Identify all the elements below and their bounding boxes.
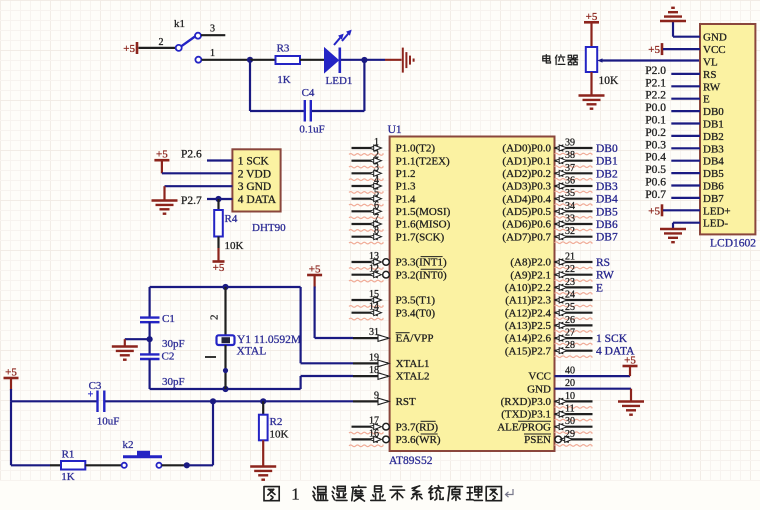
svg-text:35: 35	[565, 188, 575, 199]
svg-text:8: 8	[374, 226, 379, 237]
svg-text:P1.7(SCK): P1.7(SCK)	[396, 231, 445, 243]
svg-text:LED-: LED-	[703, 218, 728, 230]
svg-text:RW: RW	[703, 81, 721, 93]
svg-text:1 SCK: 1 SCK	[238, 156, 270, 168]
svg-text:k1: k1	[174, 18, 185, 30]
svg-text:+5: +5	[648, 44, 660, 56]
svg-text:Y1 11.0592M: Y1 11.0592M	[237, 334, 301, 346]
svg-text:9: 9	[374, 390, 379, 401]
svg-text:33: 33	[565, 214, 575, 225]
svg-text:P3.4(T0): P3.4(T0)	[396, 307, 436, 319]
svg-text:DHT90: DHT90	[252, 222, 286, 234]
svg-text:(AD4)P0.4: (AD4)P0.4	[502, 193, 551, 205]
svg-text:22: 22	[565, 264, 575, 275]
svg-text:34: 34	[565, 201, 575, 212]
svg-text:(AD3)P0.3: (AD3)P0.3	[502, 181, 551, 193]
svg-text:18: 18	[369, 365, 379, 376]
svg-text:0.1uF: 0.1uF	[299, 124, 324, 136]
svg-text:P0.3: P0.3	[645, 139, 666, 151]
svg-text:20: 20	[565, 378, 575, 389]
svg-text:(A11)P2.3: (A11)P2.3	[505, 295, 551, 307]
svg-text:3: 3	[210, 24, 215, 35]
svg-text:C3: C3	[89, 380, 102, 392]
svg-text:36: 36	[565, 176, 575, 187]
svg-text:(A9)P2.1: (A9)P2.1	[510, 269, 551, 281]
svg-text:31: 31	[369, 327, 379, 338]
svg-text:DB4: DB4	[703, 156, 724, 168]
svg-text:E: E	[596, 282, 603, 294]
svg-text:23: 23	[565, 277, 575, 288]
svg-text:R1: R1	[62, 449, 75, 461]
svg-text:17: 17	[369, 416, 379, 427]
svg-text:15: 15	[369, 289, 379, 300]
svg-text:+5: +5	[648, 205, 660, 217]
svg-text:DB3: DB3	[703, 143, 724, 155]
svg-text:30: 30	[565, 416, 575, 427]
svg-text:14: 14	[369, 302, 379, 313]
svg-text:30pF: 30pF	[162, 338, 185, 350]
svg-text:1: 1	[374, 137, 379, 148]
svg-text:40: 40	[565, 366, 575, 377]
svg-text:P1.0(T2): P1.0(T2)	[396, 143, 436, 155]
svg-text:(AD1)P0.1: (AD1)P0.1	[502, 155, 551, 167]
svg-text:VCC: VCC	[528, 371, 551, 383]
svg-text:37: 37	[565, 163, 575, 174]
svg-text:16: 16	[369, 428, 379, 439]
svg-text:24: 24	[565, 290, 575, 301]
svg-text:DB0: DB0	[596, 143, 618, 155]
svg-text:P3.2(INT0): P3.2(INT0)	[396, 269, 447, 281]
svg-text:DB2: DB2	[596, 168, 618, 180]
svg-text:(AD6)P0.6: (AD6)P0.6	[502, 219, 551, 231]
svg-text:+5: +5	[123, 43, 135, 55]
svg-text:VL: VL	[703, 57, 718, 69]
svg-text:U1: U1	[388, 124, 402, 136]
svg-text:10uF: 10uF	[97, 416, 120, 428]
svg-text:19: 19	[369, 352, 379, 363]
svg-text:P3.5(T1): P3.5(T1)	[396, 295, 436, 307]
svg-text:DB3: DB3	[596, 181, 618, 193]
svg-text:P1.5(MOSI): P1.5(MOSI)	[396, 206, 451, 218]
svg-text:4 DATA: 4 DATA	[238, 194, 277, 206]
svg-text:P2.2: P2.2	[645, 90, 666, 102]
svg-text:2: 2	[159, 37, 164, 48]
svg-text:DB0: DB0	[703, 106, 724, 118]
svg-text:C4: C4	[302, 87, 315, 99]
svg-text:28: 28	[565, 340, 575, 351]
svg-text:XTAL: XTAL	[237, 346, 267, 358]
svg-text:GND: GND	[527, 383, 551, 395]
svg-text:P1.4: P1.4	[396, 193, 416, 205]
svg-text:P0.6: P0.6	[645, 177, 666, 189]
svg-text:4: 4	[374, 175, 379, 186]
svg-text:10K: 10K	[599, 75, 620, 87]
svg-text:7: 7	[374, 213, 379, 224]
svg-text:1 SCK: 1 SCK	[596, 333, 628, 345]
svg-text:P3.6(WR): P3.6(WR)	[396, 434, 441, 446]
svg-text:P0.5: P0.5	[645, 164, 666, 176]
svg-text:LCD1602: LCD1602	[710, 238, 756, 250]
svg-text:C1: C1	[162, 313, 175, 325]
svg-text:E: E	[703, 94, 710, 106]
svg-text:XTAL2: XTAL2	[396, 371, 430, 383]
svg-text:DB1: DB1	[596, 156, 618, 168]
svg-text:P3.3(INT1): P3.3(INT1)	[396, 257, 447, 269]
svg-text:GND: GND	[703, 32, 727, 44]
svg-text:P0.1: P0.1	[645, 115, 666, 127]
svg-text:27: 27	[565, 328, 575, 339]
svg-text:P1.1(T2EX): P1.1(T2EX)	[396, 155, 450, 167]
svg-text:38: 38	[565, 150, 575, 161]
svg-text:R2: R2	[270, 416, 283, 428]
svg-text:+5: +5	[624, 355, 636, 367]
svg-text:+5: +5	[213, 262, 225, 274]
svg-text:1: 1	[210, 48, 215, 59]
svg-text:RW: RW	[596, 270, 614, 282]
svg-text:DB4: DB4	[596, 194, 618, 206]
svg-text:DB7: DB7	[703, 193, 724, 205]
svg-text:EA/VPP: EA/VPP	[396, 333, 434, 345]
svg-text:(RXD)P3.0: (RXD)P3.0	[501, 396, 552, 408]
svg-text:DB6: DB6	[703, 181, 724, 193]
svg-text:21: 21	[565, 252, 575, 263]
svg-text:12: 12	[369, 264, 379, 275]
svg-text:11: 11	[565, 404, 575, 415]
svg-text:1K: 1K	[277, 74, 291, 86]
svg-text:P0.0: P0.0	[645, 102, 666, 114]
svg-text:AT89S52: AT89S52	[389, 455, 433, 467]
svg-text:DB6: DB6	[596, 219, 618, 231]
svg-text:DB2: DB2	[703, 131, 724, 143]
svg-text:P0.7: P0.7	[645, 189, 666, 201]
svg-text:P1.2: P1.2	[396, 168, 416, 180]
svg-text:P2.1: P2.1	[645, 77, 666, 89]
svg-text:VCC: VCC	[703, 44, 726, 56]
svg-text:R3: R3	[277, 43, 290, 55]
svg-text:6: 6	[374, 200, 379, 211]
svg-text:PSEN: PSEN	[524, 434, 551, 446]
svg-text:+5: +5	[5, 367, 17, 379]
svg-text:P0.2: P0.2	[645, 127, 666, 139]
svg-text:+5: +5	[156, 149, 168, 161]
svg-text:P2.7: P2.7	[181, 195, 202, 207]
svg-text:k2: k2	[123, 439, 134, 451]
svg-text:P3.7(RD): P3.7(RD)	[396, 421, 439, 433]
svg-text:2: 2	[374, 150, 379, 161]
svg-text:DB5: DB5	[596, 206, 618, 218]
svg-text:5: 5	[374, 188, 379, 199]
svg-text:XTAL1: XTAL1	[396, 358, 430, 370]
svg-text:1: 1	[291, 485, 300, 504]
svg-text:25: 25	[565, 302, 575, 313]
svg-text:LED+: LED+	[703, 205, 731, 217]
svg-text:2: 2	[209, 315, 221, 321]
svg-text:32: 32	[565, 226, 575, 237]
svg-text:(AD7)P0.7: (AD7)P0.7	[502, 231, 551, 243]
svg-text:10K: 10K	[270, 429, 289, 441]
svg-text:29: 29	[565, 429, 575, 440]
svg-text:30pF: 30pF	[162, 376, 185, 388]
svg-text:(AD0)P0.0: (AD0)P0.0	[502, 143, 551, 155]
svg-text:13: 13	[369, 251, 379, 262]
svg-text:RS: RS	[703, 69, 716, 81]
svg-text:10K: 10K	[225, 240, 244, 252]
svg-text:+5: +5	[309, 264, 321, 276]
svg-text:39: 39	[565, 138, 575, 149]
svg-text:(A14)P2.6: (A14)P2.6	[505, 333, 552, 345]
svg-text:DB7: DB7	[596, 232, 618, 244]
svg-text:(A15)P2.7: (A15)P2.7	[505, 345, 552, 357]
svg-text:P2.0: P2.0	[645, 65, 666, 77]
svg-text:P2.6: P2.6	[181, 149, 202, 161]
svg-text:P0.4: P0.4	[645, 152, 666, 164]
svg-text:C2: C2	[162, 351, 175, 363]
svg-text:LED1: LED1	[326, 75, 353, 87]
svg-text:(TXD)P3.1: (TXD)P3.1	[501, 409, 551, 421]
svg-text:10: 10	[565, 391, 575, 402]
svg-text:+5: +5	[586, 11, 598, 23]
svg-text:26: 26	[565, 315, 575, 326]
svg-text:DB1: DB1	[703, 119, 724, 131]
svg-text:ALE/PROG: ALE/PROG	[497, 421, 551, 433]
svg-text:3 GND: 3 GND	[238, 181, 272, 193]
svg-text:(A13)P2.5: (A13)P2.5	[505, 320, 552, 332]
svg-text:(A10)P2.2: (A10)P2.2	[505, 282, 551, 294]
svg-text:1K: 1K	[61, 471, 75, 483]
svg-text:RS: RS	[596, 257, 610, 269]
svg-text:(AD5)P0.5: (AD5)P0.5	[502, 206, 551, 218]
svg-text:R4: R4	[225, 213, 238, 225]
svg-text:2 VDD: 2 VDD	[238, 168, 271, 180]
svg-text:DB5: DB5	[703, 168, 724, 180]
svg-text:P1.6(MISO): P1.6(MISO)	[396, 219, 451, 231]
svg-text:P1.3: P1.3	[396, 181, 416, 193]
svg-text:(A12)P2.4: (A12)P2.4	[505, 307, 552, 319]
svg-text:3: 3	[374, 162, 379, 173]
svg-text:(AD2)P0.2: (AD2)P0.2	[502, 168, 551, 180]
svg-text:RST: RST	[396, 396, 416, 408]
svg-text:(A8)P2.0: (A8)P2.0	[510, 257, 551, 269]
